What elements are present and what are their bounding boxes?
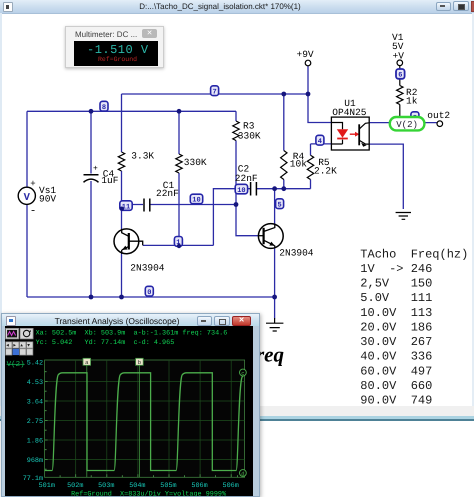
node box 5: [276, 199, 284, 210]
scope marker line b: [138, 360, 140, 477]
wire: R4 column: [283, 94, 285, 189]
scope marker flag a: [83, 358, 91, 366]
svg-text:V: V: [24, 192, 31, 204]
resistor R2 1k zigzag with leads: [397, 66, 403, 123]
main window title bar: [0, 0, 474, 14]
svg-text:40.0V 336: 40.0V 336: [360, 350, 432, 364]
resistor R3 330K zigzag: [233, 121, 239, 141]
scope marker handle d: [240, 470, 247, 478]
svg-text:10k: 10k: [290, 158, 307, 169]
svg-text:TAcho Freq(hz): TAcho Freq(hz): [360, 247, 468, 261]
wire: Q2 emitter to rail and ground: [274, 248, 276, 318]
svg-text:Xa: 502.5m Xb: 503.9m a-b:-1: Xa: 502.5m Xb: 503.9m a-b:-1.361m freq: …: [36, 330, 228, 338]
scope axis tick labels Y: [23, 360, 43, 484]
ground symbol left (below Q2): [266, 318, 283, 331]
capacitor C1 22nF plates: [144, 199, 150, 212]
resistor 3.3K zigzag: [118, 152, 124, 171]
svg-text:►: ►: [13, 344, 16, 349]
junction: 330K top on node8: [177, 109, 182, 114]
junction: node11 tap on Q1 collector: [119, 202, 124, 207]
svg-text:504m: 504m: [129, 482, 145, 490]
node box 2 (behind probe): [411, 112, 419, 123]
svg-text:502m: 502m: [67, 482, 83, 490]
svg-text:6: 6: [398, 72, 402, 80]
svg-text:c: c: [241, 370, 244, 377]
svg-text:d: d: [241, 471, 244, 478]
terminal +9V: [305, 60, 311, 66]
wire: +9V rail (node 7): [122, 93, 309, 95]
wire: opto collector to out2: [369, 122, 437, 124]
svg-text:10: 10: [192, 197, 200, 205]
wire: opto emitter to right ground: [369, 144, 403, 209]
wire: 3.3K column / Q1 collector: [121, 94, 123, 229]
svg-text:out2: out2: [427, 110, 450, 121]
junction: C1 right at R3 column: [234, 202, 239, 207]
junction: +9V drop on node7: [306, 92, 311, 97]
svg-text:V(2): V(2): [396, 120, 418, 130]
capacitor C2 22nF plates: [251, 182, 257, 196]
svg-text:OP4N25: OP4N25: [332, 107, 367, 118]
resistor 330K zigzag: [176, 154, 182, 173]
svg-text:b: b: [138, 359, 141, 366]
terminal out2: [437, 121, 443, 127]
svg-text:80.0V 660: 80.0V 660: [360, 379, 432, 393]
svg-text:+: +: [30, 179, 35, 189]
scope marker flag b: [136, 358, 144, 366]
svg-text:5.0V 111: 5.0V 111: [360, 291, 432, 305]
scope toolbar small buttons row: [6, 342, 33, 355]
ground symbol right (opto emitter): [396, 213, 411, 220]
svg-text:10.0V 113: 10.0V 113: [360, 306, 432, 320]
svg-text:0: 0: [147, 289, 151, 297]
annotation table TAcho/Freq: [360, 247, 468, 407]
junction: Q1 emitter on rail: [119, 295, 124, 300]
svg-text:30.0V 267: 30.0V 267: [360, 335, 432, 349]
svg-text:22nF: 22nF: [156, 188, 179, 199]
voltage source Vs1 90V: [18, 179, 36, 218]
svg-text:-: -: [30, 206, 37, 218]
svg-text:3.64: 3.64: [27, 399, 43, 407]
multimeter window: [65, 26, 164, 68]
wire: Q1 base row to C2 riser: [143, 244, 213, 246]
node box 0: [145, 286, 153, 297]
wire: C2 right lead to R5: [257, 188, 311, 190]
scope axis ticks: [45, 372, 238, 478]
svg-text:506m: 506m: [191, 482, 207, 490]
svg-text:501m: 501m: [39, 482, 55, 490]
svg-text:2.75: 2.75: [27, 418, 43, 426]
junction: R4 top on node7: [281, 92, 286, 97]
opto-isolator U1 OP4N25: [331, 117, 369, 150]
svg-text:20.0V 186: 20.0V 186: [360, 321, 432, 335]
svg-text:22nF: 22nF: [235, 173, 258, 184]
svg-text:+: +: [93, 165, 98, 174]
svg-text:90V: 90V: [39, 193, 56, 204]
wire: +9V to opto anode: [308, 94, 331, 123]
svg-text:1uF: 1uF: [101, 175, 118, 186]
svg-text:2N3904: 2N3904: [279, 247, 314, 258]
svg-text:1k: 1k: [406, 95, 418, 106]
svg-text:505m: 505m: [160, 482, 176, 490]
svg-text:3.3K: 3.3K: [131, 151, 154, 162]
scope marker handle c: [240, 369, 247, 377]
wire: Q2 collector drop from node5: [274, 189, 276, 224]
scope axis tick labels X: [39, 482, 239, 490]
node box 8: [100, 101, 108, 112]
svg-text:2N3904: 2N3904: [130, 262, 165, 273]
junction: node1 dot visible below box: [177, 244, 181, 248]
svg-text:2.2K: 2.2K: [314, 165, 337, 176]
svg-text:+V: +V: [393, 50, 405, 61]
svg-text:4: 4: [318, 138, 322, 146]
node box 1: [174, 237, 182, 248]
svg-text:330K: 330K: [184, 157, 207, 168]
wire: Vs1 - down to ground rail: [26, 205, 28, 298]
node box 10 (C1 side): [190, 194, 202, 205]
svg-text:V(2): V(2): [7, 360, 25, 369]
node box 7: [211, 86, 219, 97]
wire: R3 column leads: [235, 111, 237, 204]
wire: C1 right plate to R3 column: [151, 204, 237, 206]
oscilloscope window: [1, 313, 260, 497]
junction: Q2 emitter on rail: [272, 295, 277, 300]
wire: C2 riser and left lead: [213, 189, 250, 246]
svg-text:+9V: +9V: [297, 49, 314, 60]
terminal +V (V1 5V): [397, 60, 403, 66]
wire: R3 bottom down then to Q2 base: [236, 205, 259, 236]
svg-text:▼: ▼: [27, 344, 30, 349]
scope toolbar button: display: [6, 328, 19, 339]
svg-text:5: 5: [277, 202, 281, 210]
node box 4: [316, 135, 324, 146]
scope toolbar button: refresh: [20, 328, 33, 339]
svg-text:1.86: 1.86: [27, 438, 43, 446]
svg-text:330K: 330K: [238, 130, 261, 141]
scope title bar: [2, 314, 259, 326]
junction: C4 top on node8: [89, 109, 94, 114]
wire: +9V terminal drop: [307, 66, 309, 94]
svg-text:▲: ▲: [20, 344, 23, 349]
svg-text:◄: ◄: [6, 344, 9, 349]
wire: C4 top lead: [90, 111, 92, 173]
svg-text:1V -> 246: 1V -> 246: [360, 262, 432, 276]
junction: node5 right dot (R4): [281, 186, 286, 191]
bottom scrollbar strip of main window: [0, 0, 474, 1]
scope marker line a: [86, 360, 88, 477]
scope client: [5, 326, 253, 496]
scope grid: [45, 360, 245, 477]
resistor R4 10k zigzag: [281, 151, 287, 180]
wire: Q1 emitter to rail: [121, 254, 123, 298]
junction: node11 dot visible below box: [120, 207, 124, 211]
node box 10 (C2 side): [235, 184, 247, 195]
svg-text:Ref=Ground X=833u/Div Y=volta: Ref=Ground X=833u/Div Y=voltage 9999%: [71, 490, 227, 496]
scope waveform V(2): [45, 373, 245, 471]
transistor Q2 2N3904 (NPN): [258, 224, 283, 249]
svg-text:10: 10: [237, 187, 245, 195]
resistor R5 2.2K zigzag: [307, 155, 313, 179]
scope readout text: [36, 330, 228, 348]
wire: 330K column leads: [178, 111, 180, 245]
wire: left rail from node8 down to Vs1 +: [26, 111, 28, 187]
capacitor C4 1uF plates: [84, 175, 99, 183]
node box 6: [396, 69, 405, 80]
junction: node5 left dot: [272, 186, 277, 191]
svg-text:2,5V 150: 2,5V 150: [360, 277, 432, 291]
node box 11: [120, 201, 132, 212]
transistor Q1 2N3904 (mirrored NPN): [114, 229, 143, 254]
wire: C4 bottom lead: [90, 181, 92, 297]
scope plot frame: [45, 360, 245, 477]
wire: R5 top lead to opto cathode: [311, 144, 332, 189]
probe V(2): [390, 117, 425, 130]
svg-text:60.0V 497: 60.0V 497: [360, 364, 432, 378]
svg-text:7: 7: [212, 89, 216, 97]
wire: node 11 row to C1 left plate: [122, 204, 144, 206]
svg-text:506m: 506m: [223, 482, 239, 490]
junction: C4 bottom on rail: [89, 295, 94, 300]
svg-text:5.42: 5.42: [27, 360, 43, 368]
svg-text:8: 8: [102, 104, 106, 112]
svg-text:Yc: 5.042 Yd: 77.14m c-d: 4: Yc: 5.042 Yd: 77.14m c-d: 4.965: [36, 339, 175, 347]
wire: bottom ground rail (node 0): [27, 296, 275, 298]
svg-text:4.53: 4.53: [27, 379, 43, 387]
svg-text:968m: 968m: [27, 457, 43, 465]
svg-text:503m: 503m: [98, 482, 114, 490]
wire: 90V rail (node 8): [27, 110, 236, 112]
junction: 330K bottom on Q1 base row: [177, 243, 182, 248]
